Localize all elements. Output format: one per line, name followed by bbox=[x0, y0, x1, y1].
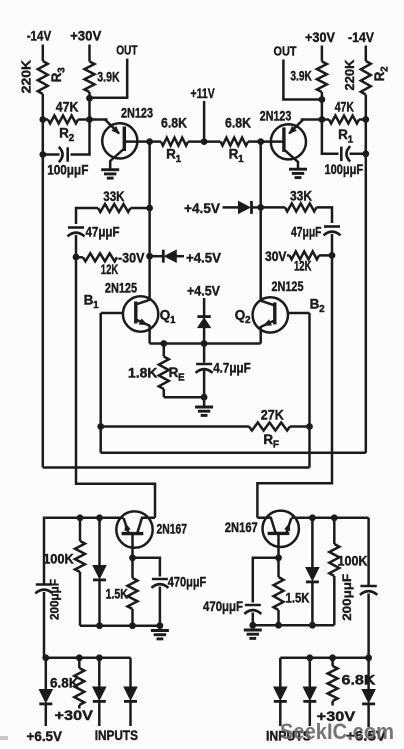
junction base node T2 / 6.8K bbox=[257, 138, 264, 145]
junction input diode 2 top (right) bbox=[306, 654, 313, 661]
capacitor 470uuF (left) body bbox=[151, 579, 168, 588]
wire right input rail bbox=[280, 657, 368, 660]
diode input 1 (right) body bbox=[274, 687, 287, 701]
svg-text:1.5K: 1.5K bbox=[286, 591, 310, 606]
wire OUT (right) bbox=[283, 60, 322, 100]
junction 200uuF line / input rail (left) bbox=[42, 654, 49, 661]
wire T4 top rail (emitter row) bbox=[291, 517, 368, 520]
svg-text:100K: 100K bbox=[338, 554, 368, 569]
capacitor 47uuF (right) label bbox=[291, 225, 322, 240]
junction RE bottom / ground bbox=[201, 394, 208, 401]
junction 100K top (right) bbox=[331, 514, 338, 521]
resistor R1 47K (right) body bbox=[329, 116, 359, 124]
resistor 100K (right) value label bbox=[338, 554, 368, 569]
capacitor 100uuF (left) body bbox=[59, 147, 68, 162]
svg-text:47μμF: 47μμF bbox=[291, 225, 322, 240]
wire -14V left rail top bbox=[42, 45, 45, 62]
wire -14V right rail top bbox=[365, 46, 368, 62]
wire 100uuF left lead bbox=[43, 153, 60, 156]
wire 12K right lead bbox=[319, 254, 332, 257]
wire 47uuF to 12K node (left) bbox=[75, 235, 78, 257]
junction diode bottom (left block) bbox=[96, 622, 103, 629]
svg-text:OUT: OUT bbox=[274, 44, 297, 59]
svg-text:47K: 47K bbox=[335, 99, 354, 114]
resistor 3.9K (left) body bbox=[85, 62, 95, 93]
wire R2 left lead bbox=[43, 118, 48, 121]
junction T4 base node bbox=[275, 554, 282, 561]
transistor T3 base stem bbox=[131, 534, 134, 558]
wire 100uuF right lead + riser bbox=[71, 120, 90, 155]
wire 33K right lead bbox=[131, 207, 150, 210]
wire rail to 33K (right) bbox=[261, 206, 285, 209]
scan artifact bottom-left bbox=[0, 736, 8, 740]
wire H3 left rail to B2 bbox=[43, 466, 310, 469]
resistor R2 value label 47K bbox=[56, 100, 79, 115]
wire H2 B1 to right rail bbox=[101, 452, 366, 455]
svg-text:220K: 220K bbox=[19, 59, 34, 93]
junction rail/+4.5V diode (right) bbox=[257, 204, 264, 211]
transistor Q2 body circle bbox=[253, 297, 288, 332]
junction 3.9K/OUT (left) bbox=[86, 95, 93, 102]
transistor 2N123 (right) base bar bbox=[282, 127, 285, 151]
svg-text:-14V: -14V bbox=[348, 29, 375, 45]
ground T1 collector bbox=[101, 170, 119, 178]
wire 6.8K row left node bbox=[150, 140, 161, 143]
wire 100K bottom lead (left) bbox=[79, 572, 82, 626]
wire left rail (R3 bottom to H3 corner) bbox=[42, 94, 45, 468]
capacitor 200uuF (left) label bbox=[48, 579, 62, 620]
wire Q1 collector rail bbox=[148, 142, 151, 301]
transistor T4 collector bbox=[257, 518, 275, 533]
wire B1 riser bbox=[99, 313, 102, 453]
svg-text:47K: 47K bbox=[56, 100, 79, 115]
junction RE top bbox=[160, 340, 167, 347]
wire diode top lead (right block) bbox=[311, 518, 314, 568]
wire RE bottom lead bbox=[163, 389, 166, 397]
diode clamp (apex up) body bbox=[197, 317, 210, 328]
transistor 2N123 (right) emitter with arrow bbox=[288, 120, 303, 135]
svg-text:200μμF: 200μμF bbox=[340, 574, 354, 621]
transistor 2N123 (left) body circle bbox=[102, 123, 137, 158]
wire 33K right lead + corner down (right) bbox=[317, 207, 333, 223]
junction 3.9K/OUT (right) bbox=[319, 96, 326, 103]
diode CR to +4.5V (right) body bbox=[239, 201, 252, 214]
wire 1.5K top lead (left) bbox=[131, 558, 134, 578]
transistor T3 base bar bbox=[122, 532, 144, 535]
junction 1.5K bottom (right block) bbox=[275, 622, 282, 629]
svg-text:33K: 33K bbox=[103, 189, 124, 204]
net +4.5V (right row) label bbox=[184, 200, 221, 216]
svg-text:1.5K: 1.5K bbox=[106, 587, 128, 602]
net +30V (right) label bbox=[305, 29, 336, 45]
capacitor 47uuF (left) label bbox=[86, 225, 120, 240]
resistor R1 6.8K (left) ref label bbox=[166, 147, 181, 166]
junction diode top (right block) bbox=[309, 514, 316, 521]
resistor R1 47K value label (right) bbox=[335, 99, 354, 114]
resistor R3 220K body bbox=[38, 61, 48, 94]
resistor 1.5K (left) value label bbox=[106, 587, 128, 602]
svg-text:30V: 30V bbox=[265, 249, 287, 264]
resistor 12K (left) value label bbox=[101, 262, 119, 277]
wire 470uuF bottom lead (left) bbox=[159, 587, 162, 626]
wire Q1 emitter down bbox=[148, 325, 151, 344]
svg-text:6.8K: 6.8K bbox=[342, 673, 376, 688]
wire input diode 2 leads (right) bbox=[309, 658, 312, 726]
net +30V input (right) label bbox=[317, 708, 356, 724]
transistor T4 body circle bbox=[263, 511, 299, 547]
node B1 label bbox=[84, 293, 99, 312]
net 30V (right) label bbox=[265, 249, 287, 264]
wire +4.5V to clamp diode bbox=[203, 298, 206, 316]
wire Q2 collector rail bbox=[259, 142, 262, 301]
net +4.5V (middle) label bbox=[187, 282, 221, 298]
capacitor 200uuF (right) body bbox=[360, 586, 377, 595]
transistor 2N123 (right) label bbox=[260, 108, 292, 123]
junction diode bottom (right block) bbox=[309, 622, 316, 629]
svg-text:2N167: 2N167 bbox=[225, 520, 258, 535]
transistor T3 body circle bbox=[116, 511, 152, 547]
junction B2/RF bbox=[306, 423, 313, 430]
wire 1.5K top lead (right) bbox=[277, 558, 280, 577]
wire T3 bottom rail bbox=[80, 624, 160, 627]
wire +11V to 6.8K right bbox=[204, 140, 220, 143]
wire RF right segment bbox=[290, 425, 310, 428]
ground left block bbox=[151, 631, 169, 639]
svg-text:+4.5V: +4.5V bbox=[186, 249, 222, 265]
transistor Q1 base bar bbox=[134, 302, 137, 324]
junction right rail / 47K R1 bbox=[362, 116, 369, 123]
net +6.5V (left) label bbox=[27, 728, 63, 744]
wire Q1 base lead bbox=[101, 312, 123, 315]
resistor R2 (right) 220K body bbox=[361, 61, 371, 95]
svg-text:OUT: OUT bbox=[116, 43, 137, 58]
net INPUTS (left) label bbox=[95, 727, 138, 743]
svg-text:3.9K: 3.9K bbox=[290, 69, 312, 84]
wire trigger coupling left (12K node to T3 collector) bbox=[76, 257, 155, 518]
diode CR to +4.5V (left) body bbox=[163, 250, 176, 263]
wire 4.7uuF top lead bbox=[203, 344, 206, 363]
resistor 3.9K (right) body bbox=[317, 62, 327, 93]
transistor Q1 collector bbox=[136, 300, 150, 305]
svg-text:6.8K: 6.8K bbox=[161, 116, 187, 131]
junction 12K node (left) bbox=[73, 254, 80, 261]
wire diode bottom lead (left block) bbox=[98, 581, 101, 626]
svg-text:4.7μμF: 4.7μμF bbox=[213, 361, 251, 376]
transistor Q2 ref label bbox=[235, 308, 251, 327]
wire T2 emitter lead bbox=[301, 118, 322, 121]
junction base node T1 / 6.8K bbox=[146, 138, 153, 145]
resistor 6.8K input (right) value label bbox=[342, 673, 376, 688]
resistor R1 6.8K (right) ref label bbox=[229, 147, 244, 166]
svg-text:SeekIC.com: SeekIC.com bbox=[280, 719, 394, 744]
junction left rail / 100uuF bbox=[39, 151, 46, 158]
wire 200uuF top lead (left) bbox=[44, 518, 46, 585]
svg-text:2N167: 2N167 bbox=[157, 521, 188, 536]
wire 3.9K bottom to node (right) bbox=[321, 92, 324, 120]
capacitor 200uuF (left) body bbox=[35, 585, 52, 594]
net -30V (left) label bbox=[118, 251, 145, 266]
resistor R2 47K body bbox=[48, 116, 78, 124]
svg-text:200μμF: 200μμF bbox=[48, 579, 62, 620]
wire 1.5K bottom lead (left) bbox=[131, 609, 134, 626]
svg-text:-30V: -30V bbox=[118, 251, 145, 266]
wire 6.8K input top lead (left) bbox=[78, 658, 81, 668]
resistor 33K (left) value label bbox=[103, 189, 124, 204]
wire rail to diode (left) bbox=[150, 255, 162, 258]
wire 6.8K left to +11V bbox=[188, 140, 204, 143]
transistor T3 emitter with arrow bbox=[124, 518, 131, 533]
resistor RE ref label bbox=[169, 365, 185, 384]
wire 100K top lead (left) bbox=[79, 518, 82, 541]
diode input 2 (right) body bbox=[303, 687, 316, 701]
transistor Q1 ref label bbox=[160, 308, 176, 327]
diode D (right block) body bbox=[306, 568, 319, 582]
junction ground (right block) bbox=[249, 622, 256, 629]
capacitor 100uuF (left) label bbox=[47, 163, 88, 178]
resistor 6.8K input (left) value label bbox=[50, 675, 79, 690]
svg-text:2N125: 2N125 bbox=[272, 279, 304, 294]
wire left input rail bbox=[46, 657, 131, 660]
watermark SeekIC.com bbox=[280, 719, 394, 744]
wire 200uuF bottom lead (right) bbox=[367, 594, 370, 658]
junction 200uuF line / input rail (right) bbox=[365, 654, 372, 661]
svg-text:12K: 12K bbox=[294, 259, 312, 274]
junction +11V / 6.8K row bbox=[201, 138, 208, 145]
node B2 label bbox=[310, 297, 325, 316]
diode D (left block) body bbox=[93, 566, 106, 580]
resistor 12K (right) value label bbox=[294, 259, 312, 274]
svg-text:INPUTS: INPUTS bbox=[95, 727, 138, 743]
svg-text:470μμF: 470μμF bbox=[168, 575, 207, 590]
wire T2 base lead bbox=[261, 140, 284, 143]
capacitor 47uuF (right) body bbox=[324, 227, 341, 236]
capacitor 470uuF (right) label bbox=[203, 599, 243, 614]
wire RF left segment bbox=[101, 425, 249, 428]
net +4.5V (left row) label bbox=[186, 249, 222, 265]
svg-text:27K: 27K bbox=[261, 408, 284, 423]
resistor R1 6.8K (left) value label bbox=[161, 116, 187, 131]
resistor 100K (left) value label bbox=[43, 551, 74, 566]
svg-text:100μμF: 100μμF bbox=[325, 162, 364, 177]
transistor 2N123 (left) emitter with arrow bbox=[105, 120, 120, 135]
resistor R2 (right) 220K value label bbox=[342, 59, 357, 91]
capacitor 200uuF (right) label bbox=[340, 574, 354, 621]
wire diode to +4.5V (left) bbox=[175, 255, 184, 258]
wire 100uuF left lead + riser (right) bbox=[322, 120, 339, 154]
wire +6.5V diode bottom lead (right) bbox=[367, 704, 370, 727]
diode supply +6.5V (right) body bbox=[362, 690, 375, 704]
wire input diode 1 leads (left) bbox=[98, 658, 101, 726]
svg-text:470μμF: 470μμF bbox=[203, 599, 243, 614]
transistor Q2 collector bbox=[261, 301, 275, 306]
resistor R1 6.8K (right) body bbox=[221, 138, 249, 146]
transistor Q2 emitter with arrow bbox=[261, 319, 275, 326]
wire input diode 2 leads (left) bbox=[129, 658, 132, 726]
junction emitter node T1 bbox=[86, 116, 93, 123]
net OUT (right) label bbox=[274, 44, 297, 59]
junction left rail / 47K R2 bbox=[39, 116, 46, 123]
svg-text:2N123: 2N123 bbox=[260, 108, 292, 123]
svg-text:+30V: +30V bbox=[70, 28, 102, 44]
svg-text:-14V: -14V bbox=[27, 28, 52, 44]
svg-text:47μμF: 47μμF bbox=[86, 225, 120, 240]
net OUT (left) label bbox=[116, 43, 137, 58]
capacitor 100uuF (right) label bbox=[325, 162, 364, 177]
svg-text:6.8K: 6.8K bbox=[225, 116, 251, 131]
svg-text:+6.5V: +6.5V bbox=[27, 728, 63, 744]
junction input diode 1 top (left) bbox=[96, 654, 103, 661]
resistor 100K (left) body bbox=[75, 541, 85, 572]
wire RE top lead bbox=[163, 344, 166, 357]
svg-text:+11V: +11V bbox=[191, 85, 216, 101]
wire RE bottom row bbox=[164, 396, 204, 399]
junction 6.8K input top (right) bbox=[329, 654, 336, 661]
net +11V label bbox=[191, 85, 216, 101]
wire T1 base lead bbox=[124, 140, 149, 143]
resistor 3.9K (left) value label bbox=[97, 70, 119, 85]
transistor 2N123 (right) body circle bbox=[271, 124, 306, 159]
junction rail/+4.5V diode (left) bbox=[146, 253, 153, 260]
wire 33K left lead + corner down bbox=[76, 208, 98, 224]
resistor R2 ref label bbox=[59, 126, 74, 145]
transistor Q1 body circle bbox=[123, 296, 158, 331]
junction right rail / 100uuF bbox=[362, 150, 369, 157]
ground emitter network bbox=[195, 407, 213, 415]
resistor RE 1.8K body bbox=[159, 357, 169, 390]
resistor 6.8K input (right) body bbox=[328, 666, 338, 706]
junction 6.8K input top (left) bbox=[76, 654, 83, 661]
wire 1.5K bottom lead (right) bbox=[277, 610, 280, 625]
wire Q2 base lead bbox=[288, 312, 310, 315]
transistor Q2 2N125 label bbox=[272, 279, 304, 294]
junction rail/33K (left) bbox=[146, 205, 153, 212]
wire ground stem (emitter network) bbox=[203, 397, 206, 406]
svg-text:100K: 100K bbox=[43, 551, 74, 566]
wire R2 right lead bbox=[78, 118, 90, 121]
svg-text:+4.5V: +4.5V bbox=[184, 200, 221, 216]
resistor RF ref label bbox=[263, 432, 278, 451]
capacitor 47uuF (left) body bbox=[68, 228, 85, 237]
resistor 1.5K (left) body bbox=[128, 578, 138, 609]
wire OUT (left) bbox=[90, 59, 128, 98]
svg-text:3.9K: 3.9K bbox=[97, 70, 119, 85]
wire 100K bottom lead (right) bbox=[333, 576, 336, 625]
wire right rail (220K bottom to H2 corner) bbox=[365, 95, 368, 453]
resistor 3.9K (right) value label bbox=[290, 69, 312, 84]
wire T1 emitter lead bbox=[90, 118, 108, 121]
diode input 1 (left) body bbox=[93, 687, 106, 701]
transistor 2N123 (left) base bar bbox=[123, 127, 126, 152]
transistor Q1 2N125 label bbox=[105, 280, 138, 295]
wire 3.9K bottom to node bbox=[88, 92, 91, 120]
transistor T3 2N167 label bbox=[157, 521, 188, 536]
resistor 33K (left) body bbox=[98, 204, 131, 212]
svg-text:+4.5V: +4.5V bbox=[187, 282, 221, 298]
resistor R3 value label 220K bbox=[19, 59, 34, 93]
resistor 100K (right) body bbox=[329, 544, 339, 576]
ground right block bbox=[244, 630, 262, 638]
wire Q2 emitter down bbox=[259, 326, 262, 344]
wire 200uuF top lead (right) bbox=[367, 518, 370, 586]
net INPUTS (right) label bbox=[266, 728, 311, 744]
wire 200uuF bottom lead (left) bbox=[43, 592, 46, 658]
transistor T3 collector bbox=[137, 518, 155, 533]
net +30V input (left) label bbox=[55, 707, 94, 723]
wire +6.5V diode top lead (left) bbox=[45, 658, 48, 690]
resistor 12K (left) body bbox=[83, 253, 117, 261]
transistor 2N123 (right) collector bbox=[284, 149, 298, 169]
wire 100uuF right lead (right) bbox=[350, 153, 366, 156]
diode input 2 (left) body bbox=[124, 687, 137, 701]
resistor 1.5K (right) value label bbox=[286, 591, 310, 606]
wire B2 riser bbox=[308, 313, 311, 468]
wire 12K left lead bbox=[76, 256, 83, 259]
resistor 33K (right) value label bbox=[290, 189, 312, 204]
resistor R1 ref label (right) bbox=[338, 127, 353, 146]
svg-text:2N123: 2N123 bbox=[121, 106, 153, 121]
wire diode bottom lead (right block) bbox=[311, 582, 314, 625]
wire +30V right lead bbox=[321, 46, 324, 62]
svg-text:+30V: +30V bbox=[55, 707, 94, 723]
ground T2 collector bbox=[289, 169, 307, 177]
transistor T4 emitter with arrow bbox=[284, 518, 291, 533]
junction 12K node (right) bbox=[329, 252, 336, 259]
net +30V (left) label bbox=[70, 28, 102, 44]
capacitor 100uuF (right) body bbox=[341, 146, 350, 161]
junction ground (left block) bbox=[157, 622, 164, 629]
junction emitter node T2 bbox=[319, 116, 326, 123]
transistor Q1 emitter with arrow bbox=[136, 318, 150, 325]
resistor 12K (right) body bbox=[290, 251, 320, 259]
wire 6.8K input top lead (right) bbox=[331, 658, 334, 666]
wire T4 bottom rail bbox=[253, 624, 334, 627]
diode supply +6.5V (left) body bbox=[39, 690, 52, 704]
resistor R2 (right) ref label bbox=[372, 66, 391, 81]
wire +11V lead bbox=[203, 101, 206, 142]
capacitor 470uuF (left) label bbox=[168, 575, 207, 590]
svg-text:12K: 12K bbox=[101, 262, 119, 277]
transistor T4 base bar bbox=[268, 532, 290, 535]
resistor 1.5K (right) body bbox=[274, 577, 284, 610]
wire clamp diode to emitter row bbox=[203, 328, 206, 344]
wire 30V text lead bbox=[287, 254, 290, 257]
wire +30V lead bbox=[88, 45, 91, 62]
svg-text:220K: 220K bbox=[342, 59, 357, 91]
junction 100K top (left) bbox=[77, 514, 84, 521]
wire 100K top lead (right) bbox=[333, 518, 336, 544]
wire base node to 470uuF (left) bbox=[133, 558, 160, 577]
resistor R1 6.8K (right) value label bbox=[225, 116, 251, 131]
junction T3 base node bbox=[129, 554, 136, 561]
resistor RF 27K body bbox=[249, 423, 290, 431]
svg-text:33K: 33K bbox=[290, 189, 312, 204]
transistor 2N123 (left) collector bbox=[110, 149, 124, 170]
transistor T4 base stem bbox=[277, 533, 280, 557]
wire base node to 470uuF (right) bbox=[253, 558, 279, 603]
wire 6.8K right to base node T2 bbox=[248, 140, 261, 143]
junction B1/RF bbox=[97, 423, 104, 430]
junction 1.5K bottom (left block) bbox=[129, 622, 136, 629]
capacitor 470uuF (right) body bbox=[244, 605, 261, 614]
transistor Q2 base bar bbox=[273, 302, 276, 324]
net -14V (right) label bbox=[348, 29, 375, 45]
svg-text:6.8K: 6.8K bbox=[50, 675, 79, 690]
wire diode top lead (left block) bbox=[98, 518, 101, 566]
wire 470uuF bottom lead (right) bbox=[252, 613, 255, 626]
capacitor 4.7uuF label bbox=[213, 361, 251, 376]
resistor RE value label 1.8K bbox=[128, 366, 158, 381]
transistor 2N123 (left) label bbox=[121, 106, 153, 121]
